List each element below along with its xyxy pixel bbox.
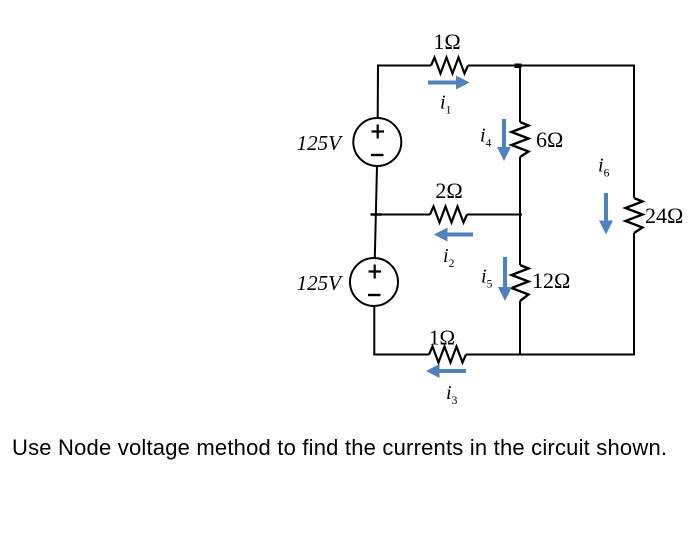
svg-text:1Ω: 1Ω xyxy=(433,29,460,54)
svg-text:i6: i6 xyxy=(598,155,610,180)
current arrow i6 xyxy=(599,193,613,235)
svg-text:i3: i3 xyxy=(446,382,458,407)
wire: bottom horizontal left segment xyxy=(373,354,429,356)
caption text xyxy=(12,435,667,461)
wire: bottom horizontal right segment xyxy=(466,354,635,356)
wire: middle vertical top segment xyxy=(519,65,521,122)
current arrow i2 xyxy=(434,228,473,242)
node junction left middle xyxy=(371,213,382,216)
wire: top left horizontal (source1 top to 1ohm) xyxy=(378,65,431,67)
wire: middle vertical bottom segment xyxy=(519,301,521,355)
svg-text:i5: i5 xyxy=(481,266,493,291)
wire: right vertical upper xyxy=(633,65,635,199)
svg-text:i4: i4 xyxy=(480,125,492,150)
svg-text:125V: 125V xyxy=(297,131,344,155)
current arrow i5 xyxy=(498,257,512,301)
resistor R 12ohm xyxy=(512,265,529,301)
voltage source V1 circle xyxy=(353,118,401,166)
svg-text:i2: i2 xyxy=(443,245,455,270)
node junction top middle xyxy=(515,64,522,69)
svg-text:2Ω: 2Ω xyxy=(435,178,462,203)
V2 plus xyxy=(369,265,382,279)
wire: left vertical lower xyxy=(373,306,375,356)
wire: top right horizontal xyxy=(468,65,634,67)
resistor R 24ohm xyxy=(626,198,643,233)
resistor R 1ohm top xyxy=(431,58,468,74)
svg-text:i1: i1 xyxy=(440,92,452,117)
resistor R 6ohm xyxy=(512,122,529,157)
voltage source V2 circle xyxy=(350,258,398,306)
V1 minus xyxy=(371,154,384,156)
wire: right vertical lower xyxy=(633,233,635,356)
V1 plus xyxy=(372,125,385,139)
wire: middle horizontal left segment xyxy=(375,214,430,216)
wire: left vertical between source1 and node xyxy=(375,166,377,258)
svg-text:6Ω: 6Ω xyxy=(536,127,563,152)
wire: middle horizontal right segment xyxy=(467,214,522,216)
resistor R 1ohm bottom xyxy=(429,347,466,363)
svg-text:12Ω: 12Ω xyxy=(532,268,570,293)
wire: left vertical upper (to source1) xyxy=(377,65,379,119)
wire: middle vertical between 6ohm and node xyxy=(519,157,521,265)
current arrow i1 xyxy=(428,76,470,90)
svg-text:24Ω: 24Ω xyxy=(645,203,683,228)
current arrow i4 xyxy=(497,119,511,161)
resistor R 2ohm xyxy=(430,207,467,223)
V2 minus xyxy=(368,294,381,296)
current arrow i3 xyxy=(426,364,466,378)
svg-text:125V: 125V xyxy=(297,271,344,295)
svg-text:1Ω: 1Ω xyxy=(429,326,455,350)
